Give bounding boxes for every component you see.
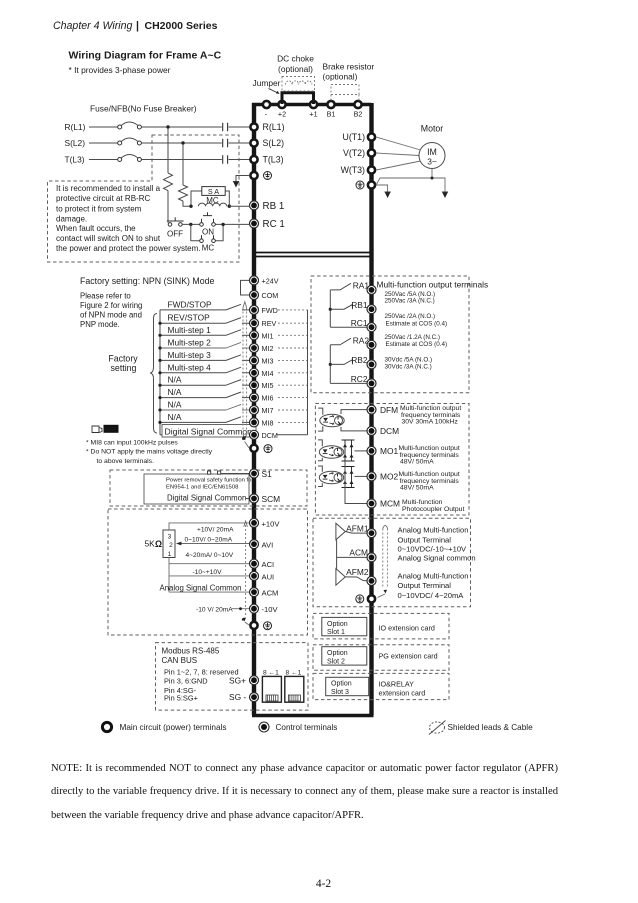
terminal DCM <box>250 430 278 440</box>
diode bridge MO1 <box>342 440 355 461</box>
label factory setting <box>108 354 138 374</box>
svg-text:Brake resistor: Brake resistor <box>323 62 375 72</box>
svg-text:MI5: MI5 <box>262 381 274 390</box>
dashed box RS-485 <box>156 643 309 711</box>
terminal +1 <box>309 101 317 119</box>
note text protective circuit <box>56 184 201 253</box>
wire T row to contact <box>141 159 221 161</box>
node R(L1) input <box>65 122 118 132</box>
optocoupler MO1 <box>318 440 344 461</box>
legend shielded leads <box>429 721 533 735</box>
svg-text:ACM: ACM <box>349 547 368 557</box>
svg-text:Wiring Diagram for Frame A~C: Wiring Diagram for Frame A~C <box>69 50 222 62</box>
svg-text:PNP mode.: PNP mode. <box>80 320 120 329</box>
terminal MI7 <box>250 406 274 416</box>
dashed box photocoupler outputs <box>315 404 469 516</box>
wire AFM2 <box>345 577 366 581</box>
svg-text:Multi-step 1: Multi-step 1 <box>168 325 212 335</box>
svg-text:OFF: OFF <box>167 230 183 239</box>
svg-text:ACM: ACM <box>262 589 279 598</box>
svg-text:Motor: Motor <box>421 124 444 134</box>
svg-text:Analog Multi-function: Analog Multi-function <box>398 572 469 581</box>
svg-text:|: | <box>136 20 139 32</box>
NOTE icon <box>92 425 119 434</box>
svg-text:W(T3): W(T3) <box>341 165 365 175</box>
svg-text:4~20mA/ 0~10V: 4~20mA/ 0~10V <box>186 552 234 559</box>
svg-text:MO1: MO1 <box>380 446 398 456</box>
wire ACI row <box>169 563 250 565</box>
svg-text:damage.: damage. <box>56 215 87 224</box>
wire V to motor <box>376 153 419 156</box>
svg-text:Modbus RS-485: Modbus RS-485 <box>162 647 220 656</box>
wire AFM1 <box>345 532 366 534</box>
svg-text:5K: 5K <box>145 539 156 549</box>
svg-text:MI4: MI4 <box>262 369 274 378</box>
svg-text:30V 30mA 100kHz: 30V 30mA 100kHz <box>402 419 459 426</box>
svg-text:Multi-function output terminal: Multi-function output terminals <box>377 280 489 290</box>
contactor contact S row <box>223 139 228 147</box>
legend main circuit terminal <box>102 722 226 732</box>
svg-text:DCM: DCM <box>262 431 278 440</box>
svg-text:N/A: N/A <box>168 412 182 422</box>
svg-text:S(L2): S(L2) <box>65 138 86 148</box>
header chapter title <box>53 20 218 32</box>
DC choke (optional) dashed box with coil <box>277 54 314 92</box>
shielded cable tube digital <box>242 302 249 448</box>
svg-text:Control terminals: Control terminals <box>276 723 338 732</box>
switch N/A MI8 <box>158 412 249 424</box>
terminal MCM <box>367 499 400 509</box>
note MI8 pulses <box>86 439 213 465</box>
shielded cable tube analog <box>242 521 249 625</box>
terminal SG+ <box>229 675 259 685</box>
svg-text:AFM1: AFM1 <box>346 524 369 534</box>
switch Multi-step 2 <box>158 338 249 350</box>
wire RC1 <box>330 326 367 328</box>
terminal +10V <box>250 518 281 528</box>
svg-text:* It provides 3-phase power: * It provides 3-phase power <box>69 65 171 75</box>
svg-text:CH2000 Series: CH2000 Series <box>145 20 218 32</box>
terminal MO1 <box>367 446 398 456</box>
svg-text:Photocoupler Output: Photocoupler Output <box>402 506 464 513</box>
svg-text:protective circuit at RB-RC: protective circuit at RB-RC <box>56 194 150 203</box>
svg-text:Slot 1: Slot 1 <box>327 629 345 636</box>
svg-text:of NPN mode and: of NPN mode and <box>80 311 142 320</box>
label MCM photocoupler output <box>402 499 464 513</box>
relay rating labels <box>385 291 448 371</box>
relay contact RA1 <box>330 283 351 290</box>
digital signal common box <box>160 425 256 438</box>
svg-text:Multi-step 2: Multi-step 2 <box>168 338 212 348</box>
svg-text:REV: REV <box>262 319 277 328</box>
svg-text:the power and protect the powe: the power and protect the power system. <box>56 244 201 253</box>
svg-text:DFM: DFM <box>380 405 398 415</box>
wire ACM row <box>169 591 250 593</box>
switch Multi-step 4 <box>158 362 249 374</box>
svg-text:U(T1): U(T1) <box>343 132 366 142</box>
label 5K ohm <box>145 539 163 549</box>
option slot 2 <box>313 645 449 671</box>
svg-text:RC 1: RC 1 <box>263 219 285 230</box>
terminal ACI <box>250 559 275 569</box>
terminal MI4 <box>250 368 274 378</box>
terminal RB1 <box>351 300 376 314</box>
svg-text:Option: Option <box>327 621 348 628</box>
label -10V/20mA with wire <box>196 606 250 613</box>
note please refer to figure 2 <box>80 291 142 329</box>
svg-text:+2: +2 <box>278 110 286 119</box>
svg-text:* MI8 can input 100kHz pulses: * MI8 can input 100kHz pulses <box>86 439 178 446</box>
wire ON to RC1 <box>216 223 250 226</box>
svg-text:MCM: MCM <box>380 499 400 509</box>
wire MCM common bus <box>345 461 367 504</box>
svg-text:-10V: -10V <box>262 605 279 614</box>
svg-text:T(L3): T(L3) <box>263 155 284 165</box>
svg-text:Analog Signal Common: Analog Signal Common <box>160 584 242 593</box>
terminal RA2 <box>353 336 376 350</box>
svg-text:Output Terminal: Output Terminal <box>398 535 452 544</box>
svg-text:Please refer to: Please refer to <box>80 291 131 300</box>
dashed wires MI terminals to common bus <box>278 310 308 423</box>
svg-text:8 ←1: 8 ←1 <box>263 669 279 676</box>
svg-text:Ω: Ω <box>155 539 162 549</box>
svg-text:T(L3): T(L3) <box>65 155 85 165</box>
svg-text:Chapter 4 Wiring: Chapter 4 Wiring <box>53 20 132 32</box>
terminal S(L2) <box>250 138 284 148</box>
terminal MI2 <box>250 344 274 354</box>
svg-text:When fault occurs, the: When fault occurs, the <box>56 224 136 233</box>
svg-text:MC: MC <box>202 243 215 252</box>
wire drive output ground <box>376 185 391 198</box>
svg-text:Factory: Factory <box>108 354 138 364</box>
terminal R(L1) <box>250 122 284 132</box>
svg-text:3~: 3~ <box>427 157 437 167</box>
svg-text:B1: B1 <box>327 110 336 119</box>
potentiometer 5K <box>163 530 175 558</box>
terminal RC1 <box>351 318 376 332</box>
svg-text:30Vdc /5A (N.O.): 30Vdc /5A (N.O.) <box>385 357 433 364</box>
terminal - (DC bus minus) <box>263 101 270 119</box>
contactor contact R row <box>223 123 228 131</box>
svg-text:+24V: +24V <box>262 276 279 285</box>
terminal MI1 <box>250 331 274 341</box>
terminal RC2 <box>351 374 376 388</box>
terminal AVI <box>250 540 274 550</box>
svg-text:MI3: MI3 <box>262 356 274 365</box>
svg-text:MI1: MI1 <box>262 331 274 340</box>
analog output ground terminal <box>356 595 375 603</box>
svg-text:V(T2): V(T2) <box>343 148 365 158</box>
RJ45 jack 1 <box>262 669 281 702</box>
svg-text:(optional): (optional) <box>323 72 358 82</box>
svg-text:-: - <box>265 110 268 119</box>
svg-text:IO&RELAY: IO&RELAY <box>379 679 415 688</box>
OFF pushbutton <box>167 217 184 238</box>
svg-text:MI8: MI8 <box>262 418 274 427</box>
safety function box <box>144 474 253 504</box>
terminal DCM out <box>367 426 399 436</box>
junction dot R row <box>166 125 169 128</box>
svg-text:Power removal safety function: Power removal safety function for <box>166 478 253 484</box>
jumper bar between +2 and +1 <box>282 93 314 104</box>
switch FWD/STOP <box>160 299 250 310</box>
terminal COM <box>250 291 279 301</box>
svg-text:+1: +1 <box>309 110 317 119</box>
terminal +24V <box>250 276 279 286</box>
dashed box analog section <box>108 509 308 635</box>
svg-text:IO extension card: IO extension card <box>379 623 435 632</box>
svg-text:Multi-function: Multi-function <box>402 499 443 506</box>
svg-text:setting: setting <box>111 363 137 373</box>
wire DFM <box>341 410 367 414</box>
svg-text:AFM2: AFM2 <box>346 567 369 577</box>
dashed box safety section <box>110 470 307 506</box>
svg-text:It is recommended to install a: It is recommended to install a <box>56 184 161 193</box>
terminal MI3 <box>250 356 274 366</box>
svg-text:EN954-1 and IEC/EN61508: EN954-1 and IEC/EN61508 <box>166 485 239 491</box>
svg-text:+10V: +10V <box>262 519 281 528</box>
wire R row to terminal <box>229 126 251 128</box>
junction dot S row <box>181 141 184 144</box>
svg-text:* Do NOT apply the mains volta: * Do NOT apply the mains voltage directl… <box>86 449 213 456</box>
svg-text:Multi-function output: Multi-function output <box>400 405 461 412</box>
svg-text:250Vac /1.2A (N.C.): 250Vac /1.2A (N.C.) <box>385 334 441 341</box>
svg-text:DC choke: DC choke <box>277 54 314 64</box>
optocoupler DFM <box>318 408 344 431</box>
svg-text:R(L1): R(L1) <box>65 122 86 132</box>
svg-text:S A: S A <box>208 187 219 196</box>
svg-text:MO2: MO2 <box>380 472 398 482</box>
wire: drive bottom edge <box>252 714 374 717</box>
label modbus <box>162 647 239 703</box>
shielded cable tube analog out <box>378 526 388 598</box>
svg-text:to protect it from system: to protect it from system <box>56 204 142 213</box>
svg-text:ON: ON <box>202 228 214 237</box>
terminal V(T2) <box>343 148 375 158</box>
svg-text:RB2: RB2 <box>351 355 368 365</box>
svg-text:N/A: N/A <box>168 400 182 410</box>
svg-text:RC1: RC1 <box>351 318 368 328</box>
svg-text:PG extension card: PG extension card <box>379 652 438 661</box>
resistor RB branch (from R phase) <box>164 128 173 223</box>
wire S row to terminal <box>229 142 251 144</box>
wire pot pin3 to +10V <box>169 523 250 530</box>
contactor contact T row <box>223 155 228 163</box>
terminal W(T3) <box>341 165 376 175</box>
svg-text:Jumper: Jumper <box>253 78 281 88</box>
svg-text:Fuse/NFB(No Fuse Breaker): Fuse/NFB(No Fuse Breaker) <box>90 104 197 114</box>
input ground wire with arrow <box>233 176 250 188</box>
relay contact RB2 <box>330 359 352 365</box>
terminal SG- <box>229 692 259 702</box>
svg-text:-10 V/ 20mA: -10 V/ 20mA <box>196 606 233 613</box>
terminal MO2 <box>367 472 398 482</box>
svg-text:NOTE: NOTE <box>104 427 118 433</box>
legend control terminal <box>259 722 337 732</box>
wire R row to contact <box>141 126 221 128</box>
svg-text:Pin 3, 6:GND: Pin 3, 6:GND <box>164 677 208 686</box>
jumper label and arrow <box>253 78 281 94</box>
labels AFM outputs <box>398 525 476 600</box>
label DFM frequency terminals <box>400 405 461 426</box>
svg-text:Pin 1~2, 7, 8: reserved: Pin 1~2, 7, 8: reserved <box>164 668 239 677</box>
svg-text:extension card: extension card <box>379 689 426 698</box>
wire: drive left bus vertical <box>252 103 256 715</box>
terminal DFM <box>367 405 398 415</box>
svg-text:0~10VDC/-10~+10V: 0~10VDC/-10~+10V <box>398 545 468 554</box>
wire OFF to ON branch <box>182 223 199 226</box>
svg-text:RA1: RA1 <box>353 281 370 291</box>
svg-text:Estimate at COS (0.4): Estimate at COS (0.4) <box>386 341 448 348</box>
analog ground terminal <box>250 622 271 630</box>
terminal ACM <box>250 588 279 598</box>
svg-text:S1: S1 <box>262 469 273 479</box>
MC coil <box>198 203 226 206</box>
wire DCM out <box>341 427 367 431</box>
wire MO1 <box>355 450 367 452</box>
optocoupler MO2 <box>318 466 344 487</box>
svg-text:REV/STOP: REV/STOP <box>168 313 211 323</box>
svg-text:Digital Signal Common: Digital Signal Common <box>167 494 246 503</box>
diagram title <box>69 50 222 76</box>
wire +24V COM bracket <box>241 280 250 295</box>
resistor RC branch (from S phase) <box>179 144 191 206</box>
svg-text:Slot 2: Slot 2 <box>327 658 345 665</box>
digital ground terminal <box>250 445 272 453</box>
svg-text:RC2: RC2 <box>351 374 368 384</box>
relay contact RB1 <box>330 304 352 310</box>
terminal REV <box>250 319 277 329</box>
svg-text:250Vac /2A (N.O.): 250Vac /2A (N.O.) <box>385 313 436 320</box>
svg-text:FWD/STOP: FWD/STOP <box>168 299 212 309</box>
node T(L3) input <box>65 155 118 165</box>
wire DCM external bus <box>277 310 308 435</box>
option slot 1 <box>313 613 449 639</box>
switch S1 <box>208 471 250 474</box>
input ground terminal <box>250 172 271 180</box>
svg-text:Analog Multi-function: Analog Multi-function <box>398 525 469 534</box>
svg-text:0~10VDC/ 4~20mA: 0~10VDC/ 4~20mA <box>398 591 465 600</box>
page number <box>0 878 638 890</box>
svg-text:Multi-step 4: Multi-step 4 <box>168 362 212 372</box>
svg-text:Main circuit (power) terminals: Main circuit (power) terminals <box>120 723 227 732</box>
svg-text:MI7: MI7 <box>262 406 274 415</box>
svg-text:Multi-step 3: Multi-step 3 <box>168 350 212 360</box>
svg-text:AVI: AVI <box>262 541 274 550</box>
option slot 3 <box>313 673 449 699</box>
terminal S1 <box>250 469 273 479</box>
switch common bus left <box>159 310 161 435</box>
wire T row to terminal <box>229 159 251 161</box>
wire: drive right bus vertical <box>369 103 373 715</box>
terminal RB1 <box>250 201 285 212</box>
svg-text:Slot 3: Slot 3 <box>331 689 349 696</box>
svg-text:to above terminals.: to above terminals. <box>97 458 155 465</box>
svg-text:SCM: SCM <box>262 494 281 504</box>
wire MO2 <box>355 475 367 477</box>
terminal MI6 <box>250 393 274 403</box>
wire U to motor <box>376 137 421 150</box>
svg-text:Output Terminal: Output Terminal <box>398 581 452 590</box>
svg-text:3: 3 <box>168 534 172 541</box>
svg-text:MI6: MI6 <box>262 394 274 403</box>
amplifier AFM2 <box>336 567 369 585</box>
amplifier AFM1 <box>336 523 369 540</box>
switch N/A MI6 <box>158 387 249 399</box>
breaker pole R <box>118 122 142 129</box>
svg-text:COM: COM <box>262 291 279 300</box>
svg-text:0~10V/ 0~20mA: 0~10V/ 0~20mA <box>185 536 233 543</box>
switch REV/STOP <box>158 313 249 325</box>
svg-text:Figure 2 for wiring: Figure 2 for wiring <box>80 301 142 310</box>
svg-text:B2: B2 <box>354 110 363 119</box>
wire RC2 <box>330 382 367 384</box>
label MO1 frequency terminals <box>399 445 460 466</box>
svg-text:N/A: N/A <box>168 375 182 385</box>
svg-text:-10~+10V: -10~+10V <box>193 569 223 576</box>
terminal AFM1 <box>367 529 376 538</box>
svg-text:SG -: SG - <box>229 692 246 702</box>
svg-text:Option: Option <box>327 650 348 657</box>
breaker pole S <box>118 138 142 145</box>
relay group 1 common <box>329 290 332 327</box>
svg-text:8 ←1: 8 ←1 <box>286 669 302 676</box>
terminal -10V <box>250 604 279 614</box>
svg-text:RB 1: RB 1 <box>263 201 285 212</box>
output ground terminal <box>356 181 375 189</box>
dashed box analog outputs <box>313 518 471 607</box>
wire pot pin2 wiper to AVI <box>176 542 250 546</box>
terminal MI5 <box>250 381 274 391</box>
svg-text:Factory setting: NPN (SINK) Mo: Factory setting: NPN (SINK) Mode <box>80 276 215 286</box>
svg-text:Digital Signal Common: Digital Signal Common <box>165 426 253 436</box>
wire: drive section divider double lines <box>254 253 372 257</box>
terminal MI8 <box>250 418 274 428</box>
svg-text:Estimate at COS (0.4): Estimate at COS (0.4) <box>386 321 448 328</box>
wire pot pin1 down <box>168 558 170 593</box>
svg-text:+10V/ 20mA: +10V/ 20mA <box>197 526 234 533</box>
terminal AFM2 <box>367 576 376 585</box>
svg-text:30Vdc /3A (N.C.): 30Vdc /3A (N.C.) <box>385 364 432 371</box>
terminal RA1 <box>353 281 376 295</box>
relay group 2 common <box>329 345 332 384</box>
terminal +2 <box>278 101 286 119</box>
svg-text:2: 2 <box>169 542 173 549</box>
brake resistor (optional) dashed box <box>323 62 375 103</box>
switch Multi-step 1 <box>158 325 249 337</box>
terminal AUI <box>250 571 275 581</box>
switch N/A MI5 <box>158 375 249 387</box>
factory setting brace <box>150 314 157 434</box>
svg-text:Option: Option <box>331 681 352 688</box>
svg-text:(optional): (optional) <box>278 64 313 74</box>
svg-text:RB1: RB1 <box>351 300 368 310</box>
dashed box multi-function output terminals <box>311 276 469 393</box>
wire coil to RB1 <box>229 205 249 207</box>
terminal RB2 <box>351 355 376 369</box>
label MO2 frequency terminals <box>399 471 460 492</box>
svg-text:contact will switch ON to shut: contact will switch ON to shut <box>56 234 161 243</box>
terminal U(T1) <box>343 132 376 142</box>
node S(L2) input <box>65 138 118 148</box>
svg-text:DCM: DCM <box>380 426 399 436</box>
terminal B2 <box>354 101 363 119</box>
svg-text:CAN BUS: CAN BUS <box>162 656 198 665</box>
breaker pole T <box>118 155 142 162</box>
svg-text:250Vac /3A (N.C.): 250Vac /3A (N.C.) <box>385 298 435 305</box>
terminal RC1 <box>250 219 285 230</box>
wire: drive top bus horizontal <box>252 103 372 106</box>
